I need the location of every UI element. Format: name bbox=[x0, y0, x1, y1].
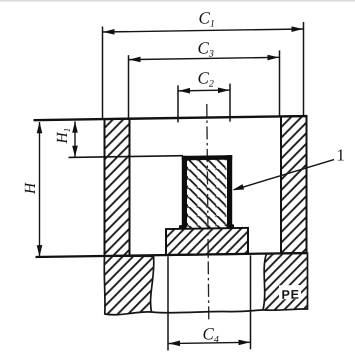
dimension C2 extension line right bbox=[229, 84, 231, 122]
svg-text:C3: C3 bbox=[198, 38, 214, 59]
base top line (cavity bottom) bbox=[36, 253, 308, 257]
dimension H1 line bbox=[74, 121, 76, 157]
PE label bbox=[279, 285, 301, 299]
stud base step (hatched) bbox=[166, 228, 248, 255]
H1 lower extension line / stud top level bbox=[69, 156, 184, 158]
stud narrow section interior (hatched opposite direction) bbox=[187, 159, 227, 229]
left wall (hatched section) bbox=[105, 119, 130, 256]
svg-text:C4: C4 bbox=[203, 324, 219, 345]
svg-text:C2: C2 bbox=[198, 68, 214, 89]
svg-text:H1: H1 bbox=[54, 128, 72, 145]
faint scanner border top edge bbox=[0, 0, 355, 2]
dimension C3 extension line left bbox=[128, 55, 130, 118]
dimension line C3 bbox=[129, 57, 280, 59]
centreline (dash-dot) bbox=[207, 104, 209, 322]
svg-text:PE: PE bbox=[282, 288, 300, 302]
stud coating: left bar bbox=[182, 156, 187, 227]
dimension line C1 bbox=[103, 29, 304, 32]
dimension C1 extension line right bbox=[303, 22, 305, 116]
base bottom wavy line across opening bbox=[152, 310, 264, 313]
right wall (hatched section) bbox=[281, 116, 307, 253]
dimension C2 extension line left bbox=[177, 85, 179, 122]
svg-text:H: H bbox=[22, 182, 39, 195]
stud coating: top cap (thick black) bbox=[182, 155, 232, 160]
dimension line C4 bbox=[168, 342, 251, 343]
base right block (hatched, break lines) bbox=[263, 253, 308, 310]
dimension C4 extension line left bbox=[167, 257, 169, 351]
base left block (hatched, break lines) bbox=[104, 255, 154, 315]
dimension C3 extension line right bbox=[279, 50, 281, 116]
top rim line bbox=[34, 116, 307, 120]
dimension line C2 bbox=[178, 89, 230, 92]
dimension C1 extension line left bbox=[102, 27, 104, 120]
svg-text:C1: C1 bbox=[199, 8, 215, 29]
svg-text:1: 1 bbox=[337, 145, 345, 164]
leader line to item 1 bbox=[234, 160, 334, 190]
stud coating: left foot bbox=[179, 224, 187, 229]
dimension H line bbox=[39, 122, 41, 257]
dimension C4 extension line right bbox=[250, 255, 252, 349]
stud coating: right bar bbox=[227, 155, 232, 226]
stud coating: right foot bbox=[227, 224, 235, 229]
